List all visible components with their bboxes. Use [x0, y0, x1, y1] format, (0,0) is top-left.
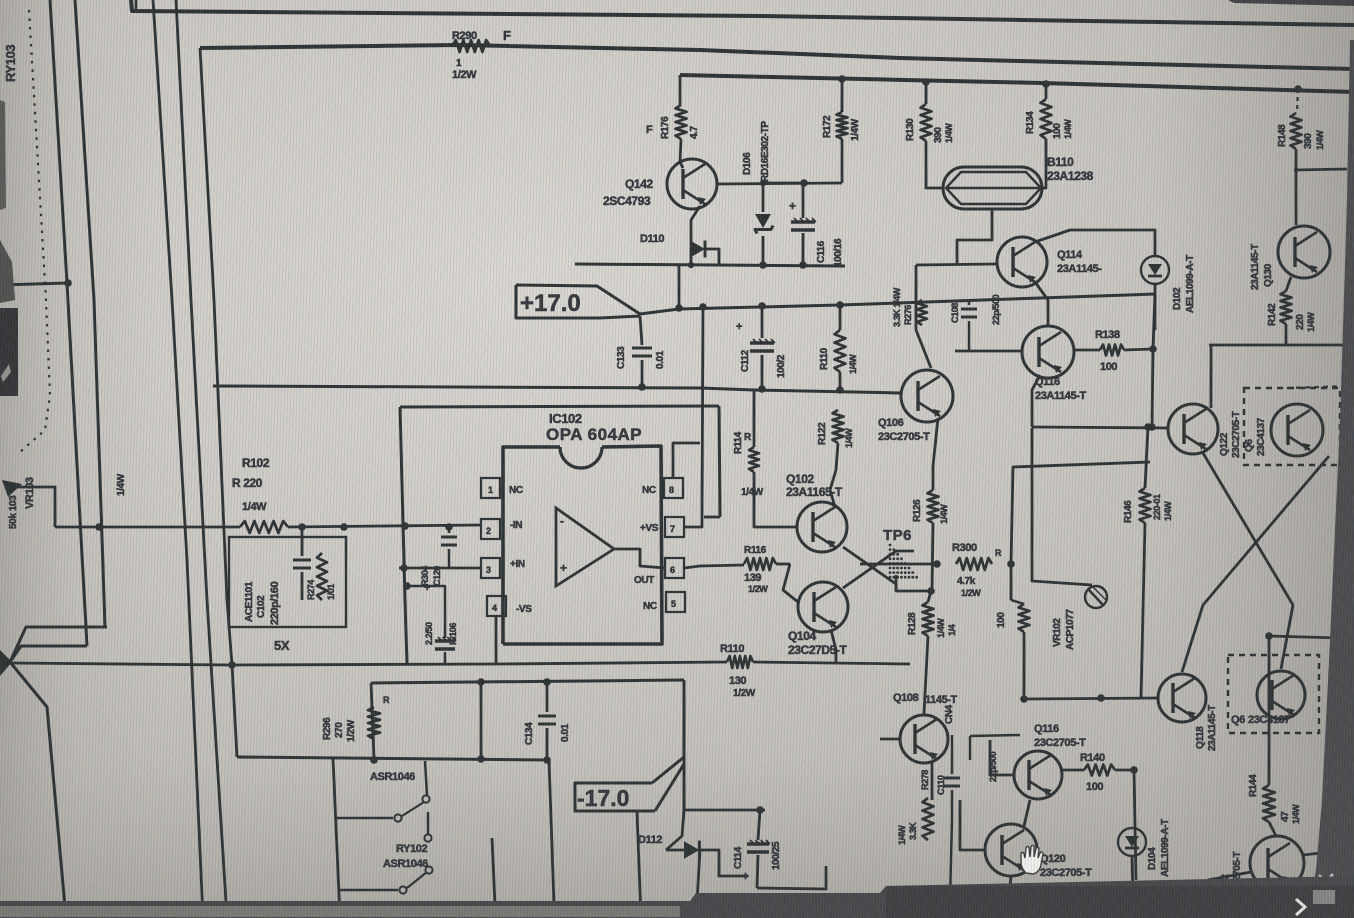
- wire Q108 base stub: [880, 738, 899, 741]
- wire R148 down to Q130: [1295, 149, 1298, 225]
- dashed box lower: [1228, 655, 1319, 733]
- dashed box upper right: [1244, 388, 1340, 465]
- svg-text:TP6: TP6: [883, 527, 912, 544]
- scrollbar v arrow: [1319, 874, 1333, 882]
- svg-text:AEL1099-A-T: AEL1099-A-T: [1185, 255, 1196, 313]
- svg-text:1/4W: 1/4W: [848, 354, 858, 374]
- svg-text:F: F: [646, 124, 653, 136]
- resistor R110b 130: [727, 656, 753, 668]
- wire H683: [371, 680, 684, 683]
- bezel bottom bar: [0, 876, 1354, 918]
- wire box-top rail L2: [200, 45, 1354, 69]
- svg-text:1/4W: 1/4W: [844, 428, 854, 448]
- wire output rail H664: [10, 663, 232, 665]
- wire H_265b: [916, 264, 996, 265]
- node B-Hc: [95, 523, 103, 531]
- svg-text:23A1145-T: 23A1145-T: [1250, 244, 1261, 290]
- wire Q117 base: [990, 740, 1014, 775]
- node boxedge-Hc: [401, 522, 409, 530]
- svg-text:5X: 5X: [274, 638, 290, 653]
- svg-text:4.7: 4.7: [689, 125, 700, 139]
- wire dotted hookup: [19, 10, 50, 453]
- svg-text:-17.0: -17.0: [577, 785, 629, 811]
- node C133-Hb: [638, 383, 646, 391]
- capacitor C108 22p/500: [968, 300, 971, 305]
- svg-text:C108: C108: [950, 303, 960, 323]
- wire Q116 collector down: [1032, 375, 1040, 427]
- svg-text:4.7k: 4.7k: [957, 576, 976, 587]
- svg-text:100: 100: [996, 612, 1007, 628]
- svg-text:R 220: R 220: [232, 476, 263, 490]
- svg-text:23A1165-T: 23A1165-T: [786, 485, 843, 499]
- node C116 bottom: [799, 261, 807, 269]
- wire H810: [684, 809, 765, 812]
- svg-text:100: 100: [1086, 781, 1103, 793]
- svg-text:23C4137: 23C4137: [1248, 714, 1290, 726]
- resistor R122: [833, 410, 844, 443]
- wire pin4 down: [495, 616, 498, 664]
- node R144 top: [1265, 632, 1273, 640]
- svg-text:100/2: 100/2: [776, 354, 787, 378]
- wire +VS drop V703: [684, 307, 703, 527]
- wire small box near C110: [970, 735, 1020, 736]
- svg-text:D102: D102: [1172, 287, 1183, 310]
- wire fan stub2: [10, 646, 87, 662]
- svg-text:R134: R134: [1025, 111, 1036, 134]
- svg-text:R114: R114: [733, 431, 744, 454]
- svg-text:6: 6: [670, 565, 675, 575]
- svg-text:VR103: VR103: [24, 477, 36, 509]
- op-amp pin4 box: [487, 596, 506, 616]
- resistor R144: [1263, 785, 1275, 822]
- svg-text:Q118: Q118: [1195, 726, 1206, 749]
- svg-text:R: R: [995, 548, 1002, 558]
- svg-text:100: 100: [1100, 361, 1117, 373]
- wire fan stub1: [10, 627, 107, 662]
- wire V1153: [1152, 294, 1155, 427]
- svg-text:IC106: IC106: [448, 623, 458, 645]
- svg-text:23C2705-T: 23C2705-T: [1231, 411, 1242, 458]
- svg-text:C134: C134: [524, 722, 535, 745]
- wire Q122 base stub: [1167, 427, 1170, 430]
- resistor R148: [1297, 89, 1298, 113]
- transistor Q116 2SA1145: [1022, 326, 1074, 378]
- wire H759: [237, 757, 549, 760]
- svg-text:OPA 604AP: OPA 604AP: [546, 425, 642, 444]
- svg-text:2.2/50: 2.2/50: [424, 622, 434, 645]
- wire stub to right edge: [1294, 169, 1347, 170]
- svg-text:1/01: 1/01: [326, 584, 336, 600]
- svg-text:1: 1: [488, 485, 493, 495]
- wire stub left edge at A: [0, 283, 68, 285]
- svg-text:ASR1046: ASR1046: [370, 771, 415, 783]
- wire TP6 node: [896, 575, 931, 591]
- node bus-R148: [1294, 85, 1302, 93]
- svg-text:OUT: OUT: [634, 575, 654, 586]
- capacitor C134 0.01: [546, 682, 549, 712]
- wire Q114 collector down: [1035, 282, 1048, 326]
- wire stub pin1: [500, 487, 504, 489]
- svg-text:1/2W: 1/2W: [748, 584, 768, 594]
- svg-text:C110: C110: [936, 775, 946, 795]
- node H699 left: [1020, 695, 1028, 703]
- wire +17 rail: [679, 294, 1155, 309]
- wire H_c input line: [55, 526, 240, 529]
- svg-text:7: 7: [670, 524, 675, 534]
- resistor R300: [956, 558, 992, 570]
- wire Q104 emitter down: [831, 630, 836, 664]
- svg-text:R296: R296: [322, 717, 333, 740]
- wire Q104 base: [783, 564, 798, 602]
- wire D104 stub down: [1132, 856, 1133, 897]
- node R138 right: [1149, 345, 1157, 353]
- svg-text:1/4W: 1/4W: [897, 825, 907, 845]
- resistor R172: [841, 79, 844, 112]
- svg-text:R300: R300: [952, 542, 977, 554]
- svg-text:ACP1077: ACP1077: [1065, 609, 1076, 650]
- resistor R102 220: [240, 521, 288, 533]
- svg-text:8: 8: [669, 485, 674, 495]
- relay switch SW1: [337, 817, 393, 820]
- svg-text:1/4W: 1/4W: [1291, 804, 1301, 824]
- svg-text:130: 130: [729, 675, 746, 687]
- svg-text:R290: R290: [452, 30, 477, 42]
- diode D106 zener RD16E302: [763, 183, 804, 212]
- svg-text:+17.0: +17.0: [520, 290, 581, 317]
- capacitor C112 100/2: [761, 306, 764, 338]
- svg-text:NC: NC: [643, 601, 657, 612]
- svg-text:22p/500: 22p/500: [991, 294, 1001, 325]
- resistor R176: [676, 105, 687, 139]
- diode D110: [691, 241, 705, 257]
- LED D102 AEL1099: [1141, 256, 1169, 284]
- svg-text:D110: D110: [640, 233, 664, 245]
- svg-text:C133: C133: [616, 346, 627, 369]
- svg-text:-VS: -VS: [516, 604, 532, 615]
- node R296 bottom: [370, 756, 378, 764]
- capacitor C102 plates: [301, 527, 304, 556]
- node bus-R172: [838, 75, 846, 83]
- svg-text:100/16: 100/16: [833, 238, 844, 267]
- svg-text:R140: R140: [1080, 752, 1105, 764]
- scrollbar right arrow: [1296, 899, 1305, 915]
- transistor Q142 2SC4793: [667, 159, 717, 209]
- svg-text:0.01: 0.01: [655, 350, 666, 369]
- svg-text:Q120: Q120: [1040, 853, 1066, 865]
- svg-text:CN4: CN4: [944, 704, 955, 724]
- svg-text:1/2W: 1/2W: [961, 588, 981, 598]
- node bus-R134: [1042, 80, 1050, 88]
- svg-text:R278: R278: [920, 770, 930, 790]
- svg-text:R102: R102: [242, 456, 270, 470]
- wire Q108 emitter down: [931, 762, 934, 800]
- svg-text:+: +: [742, 869, 749, 883]
- svg-text:R130: R130: [905, 118, 916, 141]
- bezel right edge: [1310, 40, 1354, 898]
- op-amp pin5 box: [666, 592, 685, 612]
- test point TP6 dot wedge: [889, 544, 892, 547]
- svg-text:R116: R116: [744, 545, 767, 556]
- transistor Q120 2SC2705: [985, 824, 1037, 876]
- transistor Q117 2SC2705 upper-mid: [1014, 751, 1062, 799]
- small cap at pin3 wire: [448, 527, 451, 533]
- op-amp pin1 box: [481, 478, 500, 498]
- wire Q106 emitter to R126: [933, 418, 938, 490]
- svg-text:1/4W: 1/4W: [850, 118, 861, 141]
- svg-text:23C2705-T: 23C2705-T: [1034, 737, 1086, 749]
- svg-text:1/4W: 1/4W: [1315, 130, 1325, 150]
- LED D104 AEL1099: [1118, 828, 1146, 856]
- svg-text:C112: C112: [740, 349, 751, 372]
- capacitor C114 100/25: [758, 810, 760, 840]
- label +17.0 box: [516, 285, 679, 314]
- op-amp pin3 box: [481, 558, 500, 578]
- node C112-Hb: [758, 385, 766, 393]
- capacitor IC106 2.2/50 electrolytic: [435, 637, 456, 649]
- wire base crossing: [776, 563, 790, 566]
- node split-E: [228, 661, 236, 669]
- node D106 bottom: [759, 261, 767, 269]
- svg-text:5: 5: [671, 599, 676, 609]
- svg-text:R110: R110: [720, 643, 744, 655]
- capacitor C110 22p/500: [951, 735, 954, 774]
- wire opamp out to pin6: [614, 549, 665, 568]
- svg-text:3.3K: 3.3K: [908, 822, 918, 840]
- wire R134 to B110: [1042, 139, 1046, 188]
- svg-text:23C4137: 23C4137: [1256, 417, 1267, 456]
- svg-text:23C2705-T: 23C2705-T: [878, 431, 930, 443]
- svg-text:Q122: Q122: [1219, 432, 1230, 456]
- svg-text:22p/500: 22p/500: [988, 751, 998, 782]
- svg-text:47: 47: [1280, 811, 1291, 822]
- wire bus L3: [680, 75, 1354, 92]
- wire top rail L1: [131, 0, 1354, 25]
- svg-text:ASR1046: ASR1046: [383, 858, 428, 870]
- svg-text:B110: B110: [1047, 155, 1074, 169]
- svg-text:100/25: 100/25: [771, 841, 782, 870]
- node Q142-D106: [800, 179, 808, 187]
- node bus-R130: [922, 78, 930, 86]
- resistor R118 out to bases: [684, 565, 744, 568]
- transistor Q132 bottom right: [1250, 836, 1304, 890]
- relay switch SW2: [338, 889, 398, 892]
- wire long left diagonal: [10, 662, 66, 918]
- svg-text:23A1145-T: 23A1145-T: [1207, 705, 1218, 751]
- wire H_b main horizontal y386: [213, 386, 754, 390]
- svg-text:R110: R110: [819, 347, 830, 370]
- svg-text:NC: NC: [642, 485, 656, 496]
- wire dashed H386: [1287, 386, 1354, 388]
- node rail-680: [675, 304, 683, 312]
- svg-text:R: R: [383, 695, 390, 705]
- wire pin3 feed: [399, 567, 481, 570]
- node R126-128: [927, 587, 935, 595]
- svg-text:Q106: Q106: [878, 417, 904, 429]
- svg-text:R126: R126: [912, 499, 923, 522]
- wire H427: [1032, 427, 1168, 428]
- svg-text:3.3K 1/4W: 3.3K 1/4W: [892, 287, 902, 327]
- op-amp IC102 OPA604 body: [503, 447, 560, 644]
- svg-text:R176: R176: [660, 116, 671, 139]
- capacitor C133 0.01: [640, 316, 642, 345]
- node D110 emitter: [688, 262, 694, 268]
- node C134: [543, 678, 551, 686]
- node H759-481: [477, 755, 485, 763]
- svg-text:Q130: Q130: [1263, 263, 1274, 287]
- svg-text:+: +: [789, 199, 796, 213]
- capacitor C116 100/16: [802, 183, 805, 218]
- svg-text:390: 390: [1303, 133, 1314, 149]
- resistor R146: [1140, 488, 1151, 523]
- svg-text:220-01: 220-01: [1152, 494, 1162, 520]
- scrollbar thumb: [0, 906, 680, 917]
- svg-text:0.01: 0.01: [560, 723, 571, 742]
- node A-stub: [64, 279, 72, 287]
- svg-text:R122: R122: [817, 422, 828, 445]
- svg-text:R148: R148: [1277, 124, 1288, 147]
- svg-text:AEL1099-A-T: AEL1099-A-T: [1160, 819, 1171, 877]
- bezel left block: [0, 308, 18, 396]
- wire -17 vertical to bottom: [637, 812, 641, 918]
- svg-text:IC102: IC102: [549, 411, 582, 426]
- wire vertical C: [153, 0, 203, 918]
- svg-text:R128: R128: [907, 612, 918, 635]
- svg-text:ACE1101: ACE1101: [244, 581, 255, 622]
- svg-text:+: +: [424, 582, 430, 594]
- wire vertical A: [50, 0, 87, 646]
- svg-text:+: +: [736, 321, 742, 333]
- svg-text:C114: C114: [733, 846, 744, 869]
- wire C110 stub down: [950, 820, 952, 900]
- svg-text:R276: R276: [903, 305, 913, 325]
- svg-text:Q108: Q108: [893, 692, 919, 704]
- op-amp pin8 box: [664, 478, 683, 498]
- svg-text:2SC4793: 2SC4793: [603, 194, 651, 208]
- resistor R144 region wires: [1269, 636, 1340, 638]
- node smallcap-Hc: [445, 523, 453, 531]
- svg-text:F: F: [503, 28, 511, 43]
- resistor R126: [928, 490, 939, 523]
- resistor R110 rail-to-Hb: [839, 305, 842, 330]
- capacitor box ACE1101 C102 220p/160: [229, 537, 346, 627]
- svg-text:RY102: RY102: [396, 843, 428, 855]
- wire V684 to D112: [666, 810, 684, 850]
- svg-text:1/4W: 1/4W: [944, 123, 954, 143]
- node R300 left: [933, 560, 941, 568]
- transistor Q114 2SA1145: [997, 237, 1047, 287]
- svg-text:Q102: Q102: [786, 472, 814, 486]
- node R146 top: [1144, 423, 1152, 431]
- dual transistor B110 2SA1238: [943, 167, 1042, 209]
- svg-text:+: +: [560, 561, 567, 575]
- wire switch feed vertical: [333, 758, 340, 918]
- screw head symbol: [1085, 586, 1107, 608]
- svg-text:1145-T: 1145-T: [925, 694, 958, 706]
- node H427-1152: [1148, 423, 1156, 431]
- resistor R278 3.3K: [923, 798, 934, 840]
- wire Q114 emitter to D102: [1035, 230, 1155, 256]
- op-amp pin7 box: [665, 517, 684, 537]
- svg-text:390: 390: [933, 127, 944, 143]
- svg-text:R146: R146: [1123, 500, 1134, 523]
- svg-text:R172: R172: [822, 115, 833, 138]
- wire Vmid 1032-438 drop: [1032, 427, 1070, 596]
- resistor R138 100: [1100, 345, 1124, 356]
- svg-text:D112: D112: [638, 834, 662, 846]
- svg-text:23A1145-T: 23A1145-T: [1035, 390, 1087, 402]
- svg-text:1/4W: 1/4W: [1306, 312, 1316, 332]
- svg-text:NC: NC: [509, 485, 523, 496]
- svg-text:23A1238: 23A1238: [1047, 169, 1094, 183]
- svg-text:50k 103: 50k 103: [8, 495, 19, 529]
- svg-text:1: 1: [456, 58, 462, 69]
- scrollbar track step: [886, 886, 1354, 918]
- node boxR: [340, 523, 348, 531]
- svg-text:139: 139: [744, 572, 761, 584]
- svg-text:D104: D104: [1147, 847, 1158, 870]
- resistor VR102 100: [1011, 600, 1024, 604]
- transistor Q6 23C4137 lower: [1257, 671, 1305, 719]
- svg-text:23C27D5-T: 23C27D5-T: [788, 643, 847, 657]
- wire pin3-IC106 node: [403, 582, 411, 590]
- transistor Q118 2SA1145: [1158, 674, 1206, 722]
- svg-text:Q104: Q104: [788, 629, 816, 643]
- resistor R276 3.3K: [917, 300, 927, 325]
- resistor R296 270: [368, 707, 380, 739]
- node R140 right: [1130, 766, 1138, 774]
- node rail-703: [699, 303, 707, 311]
- svg-text:4: 4: [492, 603, 497, 613]
- svg-text:1/4W: 1/4W: [741, 487, 764, 498]
- wire R130 to B110: [926, 141, 943, 188]
- svg-text:VR102: VR102: [1052, 618, 1063, 647]
- wire H886: [757, 866, 826, 889]
- wire Q142 to D106 node: [717, 183, 842, 184]
- diode D112: [684, 841, 699, 859]
- op-amp triangle: [556, 508, 614, 586]
- svg-text:Q114: Q114: [1057, 249, 1083, 261]
- mouse cursor hand: [1021, 846, 1043, 875]
- wire pin8 jog: [673, 443, 700, 478]
- svg-text:1/4W: 1/4W: [116, 473, 127, 496]
- svg-text:Q6: Q6: [1244, 439, 1255, 452]
- svg-text:270: 270: [334, 722, 345, 738]
- resistor R134: [1045, 84, 1048, 99]
- wire Q120 stub down: [1009, 876, 1011, 897]
- node H699 mid: [1097, 694, 1105, 702]
- svg-text:1/4W: 1/4W: [939, 504, 949, 524]
- svg-text:+IN: +IN: [510, 559, 525, 570]
- svg-text:Q142: Q142: [625, 177, 653, 191]
- svg-text:23A1145-: 23A1145-: [1057, 263, 1102, 275]
- wire vertical E box edge: [200, 48, 237, 757]
- svg-text:R138: R138: [1095, 329, 1120, 341]
- svg-text:+VS: +VS: [640, 523, 659, 534]
- svg-text:23C2705-T: 23C2705-T: [1040, 867, 1092, 879]
- wire V493 to bottom: [492, 838, 495, 905]
- op-amp outer box: [400, 406, 719, 407]
- node pin3-boxedge: [400, 564, 408, 572]
- wire VR103 arrow: [2, 480, 22, 497]
- svg-text:R142: R142: [1267, 303, 1278, 326]
- transistor Q6 23C4137 upper: [1271, 404, 1323, 456]
- wire H_b right continuation: [754, 390, 901, 393]
- wire Q142 collector: [680, 162, 683, 168]
- wire V550 to bottom: [549, 760, 554, 905]
- node rail-762: [758, 302, 766, 310]
- resistor R142: [1286, 277, 1291, 291]
- scrollbar corner box: [1313, 890, 1335, 904]
